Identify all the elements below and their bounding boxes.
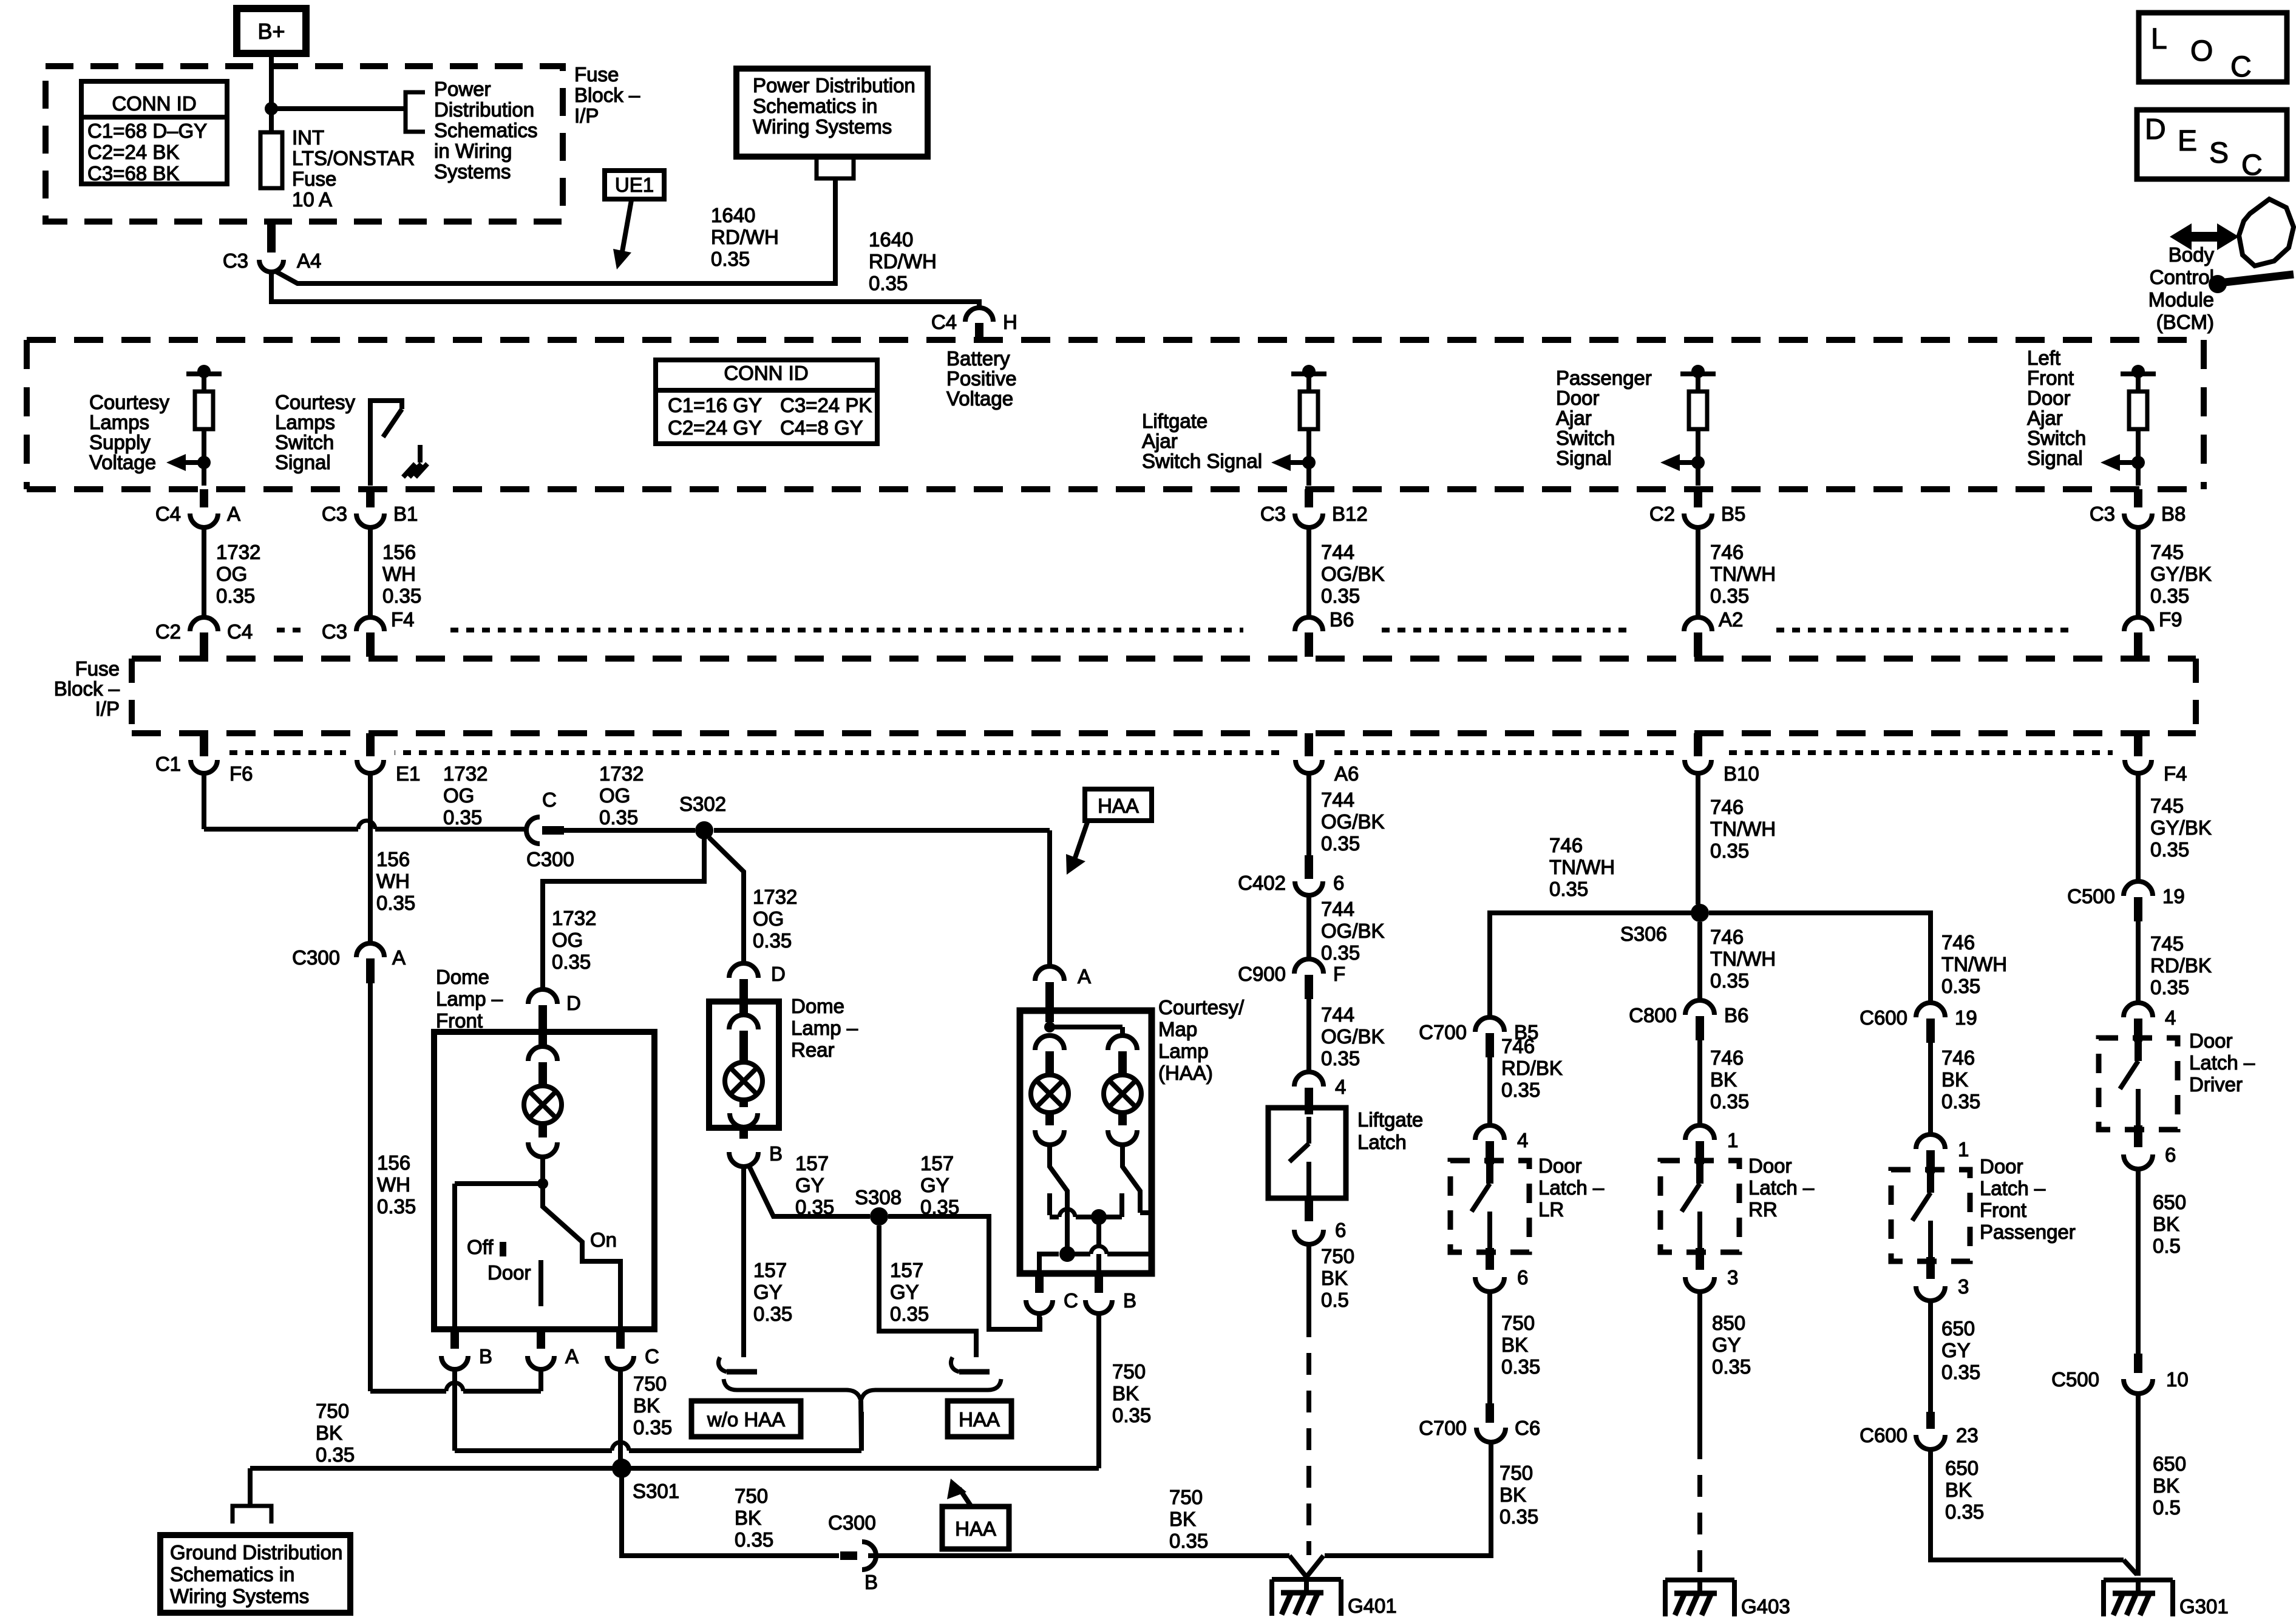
svg-text:B6: B6: [1724, 1004, 1748, 1026]
svg-text:WH: WH: [382, 563, 416, 585]
svg-text:750: 750: [316, 1400, 349, 1422]
svg-text:TN/WH: TN/WH: [1941, 953, 2007, 975]
svg-text:C2: C2: [155, 620, 181, 643]
svg-text:Distribution: Distribution: [434, 98, 534, 121]
svg-text:0.35: 0.35: [1710, 585, 1749, 607]
svg-text:I/P: I/P: [95, 697, 120, 720]
svg-text:G301: G301: [2179, 1595, 2229, 1617]
svg-text:C300: C300: [526, 848, 574, 870]
svg-text:A6: A6: [1334, 762, 1359, 785]
svg-text:F6: F6: [229, 762, 253, 785]
svg-text:0.35: 0.35: [711, 248, 750, 270]
svg-text:L: L: [2151, 23, 2167, 55]
svg-text:0.35: 0.35: [795, 1196, 834, 1218]
svg-text:Door: Door: [1556, 387, 1600, 409]
svg-text:E1: E1: [396, 762, 420, 785]
svg-text:0.35: 0.35: [753, 1303, 792, 1325]
svg-text:Schematics: Schematics: [434, 119, 538, 141]
svg-text:4: 4: [1335, 1076, 1346, 1098]
svg-text:Module: Module: [2148, 288, 2214, 311]
svg-text:746: 746: [1710, 926, 1744, 948]
svg-text:B8: B8: [2161, 503, 2186, 525]
svg-text:157: 157: [753, 1259, 787, 1281]
svg-text:C3: C3: [2090, 503, 2115, 525]
svg-text:C1: C1: [155, 753, 181, 775]
svg-text:750: 750: [1501, 1312, 1535, 1334]
svg-text:BK: BK: [735, 1507, 761, 1529]
svg-text:157: 157: [890, 1259, 923, 1281]
svg-text:w/o HAA: w/o HAA: [707, 1408, 785, 1431]
svg-text:Lamps: Lamps: [275, 411, 335, 433]
svg-text:650: 650: [2153, 1191, 2186, 1213]
svg-text:745: 745: [2150, 795, 2184, 817]
svg-text:156: 156: [382, 541, 416, 563]
svg-text:O: O: [2190, 35, 2213, 67]
svg-text:746: 746: [1501, 1035, 1535, 1057]
svg-text:850: 850: [1712, 1312, 1745, 1334]
svg-text:Fuse: Fuse: [574, 63, 619, 86]
svg-text:BK: BK: [1321, 1267, 1348, 1289]
svg-text:CONN ID: CONN ID: [724, 362, 808, 384]
svg-text:BK: BK: [1501, 1334, 1528, 1356]
svg-text:Wiring Systems: Wiring Systems: [170, 1585, 309, 1607]
svg-text:BK: BK: [1945, 1479, 1972, 1501]
svg-text:3: 3: [1958, 1275, 1969, 1298]
svg-text:C402: C402: [1238, 872, 1286, 894]
svg-text:OG/BK: OG/BK: [1321, 810, 1385, 833]
svg-text:0.35: 0.35: [1501, 1079, 1540, 1101]
svg-text:Door: Door: [1748, 1154, 1792, 1177]
svg-text:745: 745: [2150, 541, 2184, 563]
svg-text:0.35: 0.35: [1941, 1361, 1980, 1383]
svg-text:TN/WH: TN/WH: [1710, 818, 1776, 840]
svg-text:WH: WH: [377, 1173, 410, 1196]
svg-text:Ajar: Ajar: [1556, 407, 1592, 429]
svg-text:Lamps: Lamps: [89, 411, 149, 433]
svg-text:Rear: Rear: [791, 1039, 835, 1061]
svg-text:1732: 1732: [443, 762, 487, 785]
svg-text:650: 650: [2153, 1453, 2186, 1475]
svg-text:OG/BK: OG/BK: [1321, 1025, 1385, 1048]
svg-text:650: 650: [1941, 1317, 1975, 1340]
svg-text:746: 746: [1941, 1046, 1975, 1069]
svg-text:OG: OG: [443, 784, 474, 807]
svg-text:1640: 1640: [869, 228, 913, 251]
svg-text:B: B: [769, 1142, 783, 1165]
svg-text:157: 157: [920, 1152, 954, 1175]
svg-text:0.35: 0.35: [2150, 976, 2189, 998]
svg-text:CONN ID: CONN ID: [112, 92, 196, 115]
svg-text:LR: LR: [1538, 1198, 1564, 1221]
svg-text:1: 1: [1958, 1138, 1969, 1161]
svg-text:750: 750: [1169, 1486, 1203, 1508]
svg-text:750: 750: [1321, 1245, 1354, 1267]
svg-text:Lamp –: Lamp –: [791, 1017, 858, 1039]
svg-text:0.35: 0.35: [1941, 975, 1980, 997]
svg-text:RD/BK: RD/BK: [2150, 954, 2212, 977]
svg-text:TN/WH: TN/WH: [1710, 947, 1776, 970]
svg-text:Courtesy: Courtesy: [89, 391, 170, 413]
svg-text:746: 746: [1710, 1046, 1744, 1069]
svg-text:F4: F4: [2164, 762, 2187, 785]
svg-text:I/P: I/P: [574, 104, 599, 127]
svg-text:0.35: 0.35: [1169, 1530, 1208, 1552]
svg-text:0.5: 0.5: [2153, 1496, 2181, 1519]
svg-text:744: 744: [1321, 898, 1354, 920]
svg-text:Switch: Switch: [1556, 427, 1615, 449]
svg-text:RR: RR: [1748, 1198, 1778, 1221]
svg-text:C700: C700: [1419, 1021, 1467, 1043]
svg-text:746: 746: [1710, 796, 1744, 818]
svg-text:4: 4: [1517, 1129, 1528, 1151]
svg-text:745: 745: [2150, 932, 2184, 955]
svg-text:F: F: [1333, 963, 1345, 985]
svg-text:0.35: 0.35: [633, 1416, 672, 1439]
svg-text:in Wiring: in Wiring: [434, 140, 512, 162]
svg-text:Front: Front: [436, 1009, 483, 1032]
svg-text:BK: BK: [316, 1422, 342, 1444]
svg-text:Dome: Dome: [791, 995, 844, 1017]
svg-text:750: 750: [1500, 1462, 1533, 1484]
svg-text:Front: Front: [2027, 367, 2074, 389]
svg-text:D: D: [566, 992, 581, 1014]
svg-text:Courtesy/: Courtesy/: [1158, 996, 1245, 1019]
svg-text:23: 23: [1956, 1424, 1978, 1446]
svg-text:S302: S302: [679, 793, 726, 815]
svg-text:RD/BK: RD/BK: [1501, 1057, 1563, 1079]
svg-text:A: A: [392, 946, 406, 969]
svg-text:F4: F4: [391, 608, 415, 631]
svg-text:GY: GY: [753, 1281, 783, 1303]
svg-text:0.35: 0.35: [1500, 1505, 1538, 1528]
svg-text:0.35: 0.35: [753, 929, 792, 952]
svg-text:Switch: Switch: [2027, 427, 2086, 449]
svg-text:Ground Distribution: Ground Distribution: [170, 1541, 342, 1564]
svg-text:Door: Door: [2189, 1029, 2233, 1052]
svg-text:D: D: [2145, 114, 2166, 146]
svg-text:C500: C500: [2051, 1368, 2099, 1391]
svg-text:C4=8 GY: C4=8 GY: [780, 416, 863, 439]
svg-text:1640: 1640: [711, 204, 755, 226]
svg-text:0.35: 0.35: [2150, 838, 2189, 861]
svg-text:Passenger: Passenger: [1980, 1221, 2076, 1243]
svg-text:BK: BK: [1941, 1068, 1968, 1091]
svg-text:C: C: [2241, 149, 2263, 181]
svg-text:RD/WH: RD/WH: [711, 226, 779, 248]
svg-text:Front: Front: [1980, 1199, 2026, 1221]
svg-text:Door: Door: [487, 1261, 531, 1284]
svg-text:0.5: 0.5: [2153, 1235, 2181, 1257]
svg-text:0.35: 0.35: [376, 892, 415, 914]
svg-text:6: 6: [1335, 1219, 1346, 1241]
svg-text:C4: C4: [155, 503, 181, 525]
svg-text:Fuse: Fuse: [75, 657, 120, 680]
svg-text:19: 19: [2162, 885, 2185, 907]
svg-text:Courtesy: Courtesy: [275, 391, 356, 413]
svg-text:Signal: Signal: [2027, 447, 2083, 469]
svg-text:B: B: [479, 1345, 492, 1368]
svg-text:G401: G401: [1348, 1595, 1397, 1617]
svg-text:Schematics in: Schematics in: [753, 95, 877, 117]
svg-text:C3: C3: [322, 503, 347, 525]
svg-text:Door: Door: [2027, 387, 2071, 409]
svg-text:C3=68 BK: C3=68 BK: [87, 162, 179, 185]
svg-text:744: 744: [1321, 788, 1354, 811]
svg-text:BK: BK: [1112, 1382, 1139, 1405]
svg-text:0.35: 0.35: [1321, 585, 1360, 607]
svg-text:Latch –: Latch –: [2189, 1051, 2255, 1074]
svg-text:C800: C800: [1629, 1004, 1677, 1026]
svg-text:Off: Off: [467, 1236, 494, 1258]
svg-text:C3: C3: [223, 249, 248, 272]
svg-text:Lamp –: Lamp –: [436, 988, 503, 1010]
svg-text:C4: C4: [227, 620, 253, 643]
svg-text:0.35: 0.35: [552, 951, 591, 973]
svg-text:0.5: 0.5: [1321, 1289, 1349, 1311]
svg-text:HAA: HAA: [955, 1517, 996, 1540]
svg-text:Block –: Block –: [574, 84, 640, 106]
svg-text:1732: 1732: [552, 907, 596, 929]
svg-text:0.35: 0.35: [2150, 585, 2189, 607]
svg-text:Driver: Driver: [2189, 1073, 2243, 1096]
svg-text:6: 6: [2165, 1144, 2176, 1166]
svg-text:B1: B1: [393, 503, 418, 525]
svg-text:On: On: [590, 1229, 617, 1251]
svg-text:OG: OG: [552, 929, 583, 951]
svg-text:S301: S301: [633, 1480, 679, 1502]
svg-text:Switch Signal: Switch Signal: [1142, 450, 1262, 472]
svg-text:S: S: [2209, 137, 2229, 169]
svg-text:Fuse: Fuse: [292, 168, 336, 190]
svg-text:B10: B10: [1724, 762, 1759, 785]
svg-text:Power Distribution: Power Distribution: [753, 74, 915, 97]
svg-text:Signal: Signal: [1556, 447, 1612, 469]
svg-text:B6: B6: [1330, 608, 1354, 631]
svg-text:A2: A2: [1719, 608, 1743, 631]
svg-text:0.35: 0.35: [599, 806, 638, 829]
svg-text:G403: G403: [1741, 1595, 1790, 1617]
svg-text:C1=68 D–GY: C1=68 D–GY: [87, 120, 207, 142]
svg-text:1732: 1732: [753, 886, 797, 908]
svg-text:750: 750: [735, 1485, 768, 1507]
svg-text:744: 744: [1321, 1003, 1354, 1026]
svg-text:Supply: Supply: [89, 431, 151, 453]
svg-text:0.35: 0.35: [869, 272, 908, 294]
svg-text:0.35: 0.35: [216, 585, 255, 607]
svg-text:A: A: [227, 503, 240, 525]
svg-text:OG/BK: OG/BK: [1321, 563, 1385, 585]
svg-text:Control: Control: [2150, 266, 2214, 288]
svg-text:746: 746: [1549, 834, 1583, 856]
svg-text:157: 157: [795, 1152, 829, 1175]
svg-text:Ajar: Ajar: [1142, 430, 1178, 452]
svg-text:S306: S306: [1620, 923, 1667, 945]
svg-text:GY: GY: [1941, 1339, 1971, 1361]
svg-text:0.35: 0.35: [735, 1528, 773, 1551]
svg-text:1: 1: [1727, 1129, 1738, 1151]
svg-text:Liftgate: Liftgate: [1142, 410, 1207, 432]
svg-text:0.35: 0.35: [1945, 1500, 1984, 1523]
svg-text:Positive: Positive: [946, 367, 1017, 390]
svg-text:0.35: 0.35: [890, 1303, 929, 1325]
svg-text:C3=24 PK: C3=24 PK: [780, 394, 872, 416]
svg-text:Latch –: Latch –: [1748, 1176, 1815, 1199]
svg-text:1732: 1732: [216, 541, 260, 563]
svg-text:BK: BK: [2153, 1213, 2179, 1235]
svg-text:C2=24 GY: C2=24 GY: [668, 416, 762, 439]
svg-text:GY: GY: [1712, 1334, 1741, 1356]
svg-text:D: D: [771, 963, 786, 985]
svg-text:C4: C4: [931, 311, 957, 333]
svg-text:Latch: Latch: [1357, 1131, 1407, 1153]
svg-text:0.35: 0.35: [443, 806, 482, 829]
svg-text:Door: Door: [1980, 1155, 2023, 1178]
svg-text:10 A: 10 A: [292, 188, 332, 211]
svg-text:B+: B+: [257, 19, 285, 44]
svg-text:10: 10: [2166, 1368, 2189, 1391]
svg-text:Wiring Systems: Wiring Systems: [753, 115, 892, 138]
svg-text:OG: OG: [216, 563, 247, 585]
svg-text:0.35: 0.35: [377, 1195, 416, 1218]
svg-text:6: 6: [1517, 1266, 1528, 1289]
svg-text:(HAA): (HAA): [1158, 1062, 1213, 1084]
svg-text:Door: Door: [1538, 1154, 1582, 1177]
svg-text:0.35: 0.35: [316, 1443, 355, 1466]
svg-text:650: 650: [1945, 1457, 1978, 1479]
svg-text:4: 4: [2165, 1006, 2176, 1029]
svg-text:C700: C700: [1419, 1417, 1467, 1439]
svg-text:Lamp: Lamp: [1158, 1040, 1209, 1062]
svg-text:0.35: 0.35: [1549, 878, 1588, 900]
svg-text:750: 750: [1112, 1360, 1146, 1383]
svg-text:A4: A4: [297, 249, 321, 272]
svg-text:746: 746: [1710, 541, 1744, 563]
svg-text:156: 156: [377, 1151, 410, 1174]
svg-text:C: C: [645, 1345, 659, 1368]
svg-text:0.35: 0.35: [1321, 1047, 1360, 1070]
svg-text:WH: WH: [376, 870, 410, 892]
svg-text:F9: F9: [2159, 608, 2182, 631]
svg-text:Passenger: Passenger: [1556, 367, 1652, 389]
svg-text:1732: 1732: [599, 762, 644, 785]
svg-text:H: H: [1003, 311, 1017, 333]
svg-text:0.35: 0.35: [382, 585, 421, 607]
svg-text:OG: OG: [753, 907, 784, 930]
svg-text:B: B: [1123, 1289, 1136, 1312]
svg-text:LTS/ONSTAR: LTS/ONSTAR: [292, 147, 415, 169]
svg-text:6: 6: [1333, 872, 1344, 894]
svg-text:Signal: Signal: [275, 451, 331, 473]
svg-text:Block –: Block –: [54, 677, 120, 700]
svg-text:C500: C500: [2067, 885, 2115, 907]
svg-text:(BCM): (BCM): [2156, 311, 2214, 333]
svg-text:C: C: [1064, 1289, 1078, 1312]
svg-text:Ajar: Ajar: [2027, 407, 2063, 429]
svg-text:Systems: Systems: [434, 160, 511, 183]
svg-text:Battery: Battery: [946, 347, 1010, 370]
svg-text:19: 19: [1955, 1006, 1977, 1029]
svg-text:744: 744: [1321, 541, 1354, 563]
svg-text:0.35: 0.35: [1941, 1090, 1980, 1113]
svg-text:C600: C600: [1860, 1424, 1907, 1446]
svg-text:C2: C2: [1649, 503, 1675, 525]
svg-text:GY/BK: GY/BK: [2150, 563, 2212, 585]
svg-text:Map: Map: [1158, 1018, 1197, 1040]
svg-text:Power: Power: [434, 78, 491, 100]
svg-text:BK: BK: [633, 1394, 660, 1417]
svg-text:Dome: Dome: [436, 966, 489, 988]
svg-text:Voltage: Voltage: [946, 387, 1013, 410]
svg-text:Latch –: Latch –: [1538, 1176, 1605, 1199]
svg-text:C2=24 BK: C2=24 BK: [87, 141, 179, 163]
svg-text:BK: BK: [1710, 1068, 1737, 1091]
svg-text:C600: C600: [1860, 1006, 1907, 1029]
svg-text:0.35: 0.35: [1710, 1090, 1749, 1113]
svg-text:0.35: 0.35: [1112, 1404, 1151, 1426]
svg-text:750: 750: [633, 1372, 667, 1395]
svg-text:GY: GY: [795, 1174, 824, 1196]
svg-text:C300: C300: [828, 1511, 876, 1534]
svg-text:OG: OG: [599, 784, 630, 807]
svg-text:A: A: [1078, 965, 1091, 988]
svg-text:746: 746: [1941, 931, 1975, 954]
svg-text:GY/BK: GY/BK: [2150, 816, 2212, 839]
svg-text:Schematics in: Schematics in: [170, 1563, 294, 1585]
svg-text:0.35: 0.35: [1710, 969, 1749, 992]
svg-text:C: C: [542, 788, 557, 811]
svg-text:HAA: HAA: [959, 1408, 1000, 1431]
svg-text:OG/BK: OG/BK: [1321, 920, 1385, 942]
svg-text:B12: B12: [1332, 503, 1368, 525]
svg-text:INT: INT: [292, 126, 324, 149]
svg-text:Latch –: Latch –: [1980, 1177, 2046, 1199]
svg-text:E: E: [2178, 125, 2197, 157]
svg-text:C6: C6: [1515, 1417, 1540, 1439]
svg-text:Left: Left: [2027, 347, 2060, 369]
svg-text:0.35: 0.35: [1710, 839, 1749, 862]
svg-text:GY: GY: [920, 1174, 949, 1196]
svg-text:0.35: 0.35: [1712, 1355, 1751, 1378]
svg-text:3: 3: [1727, 1266, 1738, 1289]
svg-text:C: C: [2230, 51, 2252, 83]
svg-text:0.35: 0.35: [1321, 941, 1360, 964]
svg-text:0.35: 0.35: [1321, 832, 1360, 855]
svg-text:B: B: [864, 1571, 878, 1593]
svg-text:Switch: Switch: [275, 431, 334, 453]
svg-text:Voltage: Voltage: [89, 451, 156, 473]
svg-text:C900: C900: [1238, 963, 1286, 985]
svg-text:0.35: 0.35: [1501, 1355, 1540, 1378]
svg-text:S308: S308: [855, 1186, 902, 1209]
svg-text:TN/WH: TN/WH: [1710, 563, 1776, 585]
svg-text:HAA: HAA: [1098, 795, 1139, 817]
svg-text:156: 156: [376, 848, 410, 870]
svg-text:RD/WH: RD/WH: [869, 250, 937, 273]
svg-text:B5: B5: [1721, 503, 1745, 525]
svg-text:UE1: UE1: [615, 174, 654, 196]
svg-text:C3: C3: [1260, 503, 1286, 525]
svg-text:C3: C3: [322, 620, 347, 643]
svg-text:BK: BK: [2153, 1474, 2179, 1497]
svg-text:GY: GY: [890, 1281, 919, 1303]
svg-text:C300: C300: [292, 946, 340, 969]
svg-text:Liftgate: Liftgate: [1357, 1108, 1423, 1131]
svg-text:BK: BK: [1169, 1508, 1196, 1530]
svg-text:BK: BK: [1500, 1483, 1526, 1506]
svg-text:A: A: [565, 1345, 579, 1368]
svg-text:C1=16 GY: C1=16 GY: [668, 394, 762, 416]
svg-text:TN/WH: TN/WH: [1549, 856, 1615, 878]
